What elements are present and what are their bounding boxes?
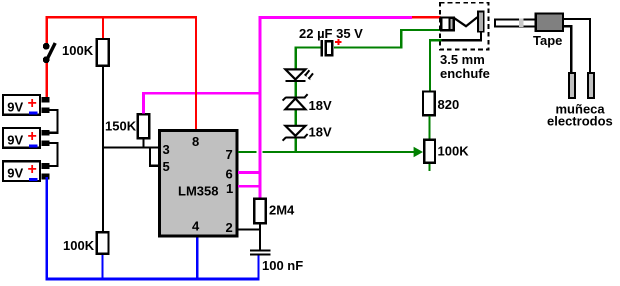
wire red drop to pin 8 xyxy=(195,16,197,130)
svg-text:2M4: 2M4 xyxy=(269,203,295,218)
jack contact gray xyxy=(449,18,453,31)
svg-text:100K: 100K xyxy=(438,144,470,159)
wire red branch to R1 xyxy=(102,16,104,39)
jack J1 3.5mm dashed box xyxy=(440,3,489,50)
wire black 150K bottom xyxy=(142,140,144,149)
svg-text:100K: 100K xyxy=(62,43,94,58)
wire magenta 150K top xyxy=(142,92,145,114)
jack tip contact xyxy=(441,17,455,30)
svg-text:18V: 18V xyxy=(309,98,332,113)
jack sleeve wire black xyxy=(441,32,482,41)
wire green up to jack ring xyxy=(400,30,402,49)
svg-text:electrodos: electrodos xyxy=(547,114,613,129)
wire red to jack tip xyxy=(412,16,441,19)
svg-text:+: + xyxy=(28,95,37,112)
wire magenta pin 6 xyxy=(238,171,261,174)
wire magenta vertical xyxy=(259,16,262,198)
svg-text:100 nF: 100 nF xyxy=(262,258,303,273)
battery B1 9V xyxy=(3,95,50,115)
resistor R3 100K bottom xyxy=(63,232,109,254)
svg-text:1: 1 xyxy=(226,181,233,196)
wire red battery to switch xyxy=(45,16,47,99)
svg-text:+: + xyxy=(28,161,37,178)
resistor R4 2M4 xyxy=(254,199,295,224)
wire green LED chain vertical xyxy=(295,48,297,154)
jack spring zigzag xyxy=(453,17,477,26)
plug P1 xyxy=(495,19,536,27)
wire green sleeve stub xyxy=(430,39,442,91)
wire black pin 5 link xyxy=(150,148,160,166)
svg-text:enchufe: enchufe xyxy=(440,66,490,81)
wiper arrow green xyxy=(414,147,423,158)
svg-text:9V: 9V xyxy=(7,99,23,114)
svg-text:2: 2 xyxy=(226,220,233,235)
op-amp U1 LM358 xyxy=(160,131,238,237)
svg-text:100K: 100K xyxy=(63,238,95,253)
wire green pin 7 xyxy=(238,151,414,153)
svg-text:LM358: LM358 xyxy=(178,184,218,199)
wire blue bottom rail xyxy=(45,278,259,281)
svg-text:22 µF 35 V: 22 µF 35 V xyxy=(299,26,363,41)
wire jumper B2- to B3+ xyxy=(49,143,58,166)
jack sleeve gray xyxy=(478,12,484,32)
svg-text:7: 7 xyxy=(226,147,233,162)
wire black 2M4 bottom to pin2 to cap xyxy=(259,225,261,250)
wire black tape to left electrode xyxy=(563,26,571,73)
wire blue below R3 xyxy=(101,255,103,280)
svg-text:+: + xyxy=(28,128,37,145)
wire blue pin 4 xyxy=(196,236,198,280)
wire red top rail xyxy=(45,16,197,19)
LED D1 xyxy=(285,69,313,82)
electrode E2 xyxy=(588,73,594,98)
wire magenta horizontal xyxy=(142,92,261,95)
wire blue up to C2 xyxy=(257,255,259,280)
zener diode D2 18V xyxy=(283,94,332,113)
svg-text:820: 820 xyxy=(438,97,460,112)
svg-text:4: 4 xyxy=(192,219,200,234)
wire green cap right xyxy=(334,46,403,48)
wire jumper B1- to B2+ xyxy=(49,110,58,133)
battery B2 9V xyxy=(3,128,50,148)
wire magenta top rail xyxy=(259,16,412,19)
battery B3 9V xyxy=(3,161,50,181)
svg-text:5: 5 xyxy=(163,159,170,174)
svg-text:8: 8 xyxy=(192,134,199,149)
wire green 820 to pot xyxy=(428,116,430,139)
zener diode D3 18V xyxy=(283,125,332,141)
wire black R1 column xyxy=(102,67,104,232)
wire magenta pin 1 xyxy=(238,185,261,188)
svg-text:9V: 9V xyxy=(7,132,23,147)
svg-text:3.5 mm: 3.5 mm xyxy=(440,52,485,67)
svg-text:9V: 9V xyxy=(7,166,23,181)
capacitor C1 22uF 35V xyxy=(299,26,363,56)
potentiometer R6 100K xyxy=(424,140,469,163)
svg-text:150K: 150K xyxy=(105,119,137,134)
wire green to cap left xyxy=(295,46,321,48)
label electrodes xyxy=(547,102,613,129)
svg-text:6: 6 xyxy=(226,167,233,182)
label jack xyxy=(440,52,490,81)
capacitor C2 100 nF xyxy=(250,250,303,274)
svg-text:Tape: Tape xyxy=(533,33,562,48)
resistor R5 820 xyxy=(423,92,459,116)
wire green pot bottom stub xyxy=(428,164,430,171)
wire black pin 3 xyxy=(102,146,160,148)
svg-text:18V: 18V xyxy=(309,125,332,140)
wire black pin 2 xyxy=(238,229,261,231)
svg-text:3: 3 xyxy=(163,142,170,157)
wire black tape to right electrode xyxy=(563,19,590,73)
wire blue battery down xyxy=(45,177,47,280)
resistor R2 150K xyxy=(105,114,149,138)
switch S1 xyxy=(43,43,55,63)
resistor R1 100K xyxy=(62,39,109,66)
tape module xyxy=(533,14,563,48)
electrode E1 xyxy=(569,73,575,98)
wire green jack ring horizontal xyxy=(400,29,441,31)
